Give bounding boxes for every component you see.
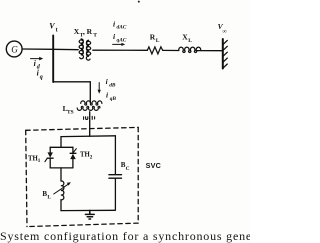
svg-text:R: R [87, 27, 93, 36]
thyristor loop top [50, 146, 73, 148]
svg-text:qB: qB [110, 96, 117, 102]
arrow iAC [113, 43, 126, 46]
svg-text:,: , [83, 27, 85, 36]
wire thyristor to BL [60, 168, 62, 181]
wire BL to bottom [60, 200, 62, 211]
capacitor BC [109, 175, 122, 179]
label BC [121, 161, 130, 172]
transformer LTS secondary [77, 106, 100, 110]
label LTS [63, 104, 74, 116]
SVC dashed box [26, 127, 139, 226]
label iq [37, 68, 43, 80]
wire capacitor to bottom [114, 179, 116, 211]
label Vt [49, 21, 57, 33]
label TH2 [80, 152, 93, 161]
arrow through BL [54, 182, 71, 194]
svg-text:L: L [156, 38, 160, 44]
svg-text:L: L [188, 38, 192, 44]
svg-text:2: 2 [90, 154, 93, 160]
transformer XT RT [79, 39, 91, 60]
wire XL to infinite bus [196, 50, 221, 52]
label TH1 [28, 155, 41, 164]
bus Vt [52, 36, 54, 83]
resistor RL [147, 47, 162, 54]
wire transformer to RL [93, 49, 148, 51]
label iqAC [113, 32, 127, 43]
label BL [42, 190, 51, 201]
label iqB [106, 91, 116, 103]
inductor XL [179, 47, 201, 52]
svg-text:dB: dB [109, 83, 116, 89]
top speck [138, 1, 140, 3]
svg-text:i: i [106, 91, 109, 100]
label RL [150, 32, 160, 44]
svg-text:T: T [93, 32, 97, 38]
svg-text:qAC: qAC [117, 38, 127, 44]
label XL [182, 32, 192, 44]
wire generator to bus Vt [22, 48, 53, 50]
svg-text:G: G [11, 44, 18, 54]
svg-text:∞: ∞ [222, 29, 227, 35]
transformer LTS winding marks [84, 116, 95, 119]
svg-text:V: V [49, 21, 55, 30]
wire LTS to SVC [89, 112, 91, 136]
svg-text:L: L [47, 195, 51, 201]
caption [0, 229, 300, 243]
svg-text:i: i [106, 77, 109, 86]
thyristor TH1 [45, 147, 53, 168]
arrow iB down [98, 83, 101, 94]
svg-text:q: q [40, 74, 43, 80]
wire to transformer [53, 48, 78, 50]
transformer LTS primary [81, 101, 102, 105]
wire RL to XL [163, 49, 179, 51]
wire to thyristor pair [60, 137, 62, 148]
wire SVC top to capacitor [114, 136, 116, 174]
infinite bus bar [222, 39, 224, 69]
label idAC [113, 19, 127, 30]
svg-text:TS: TS [67, 110, 74, 116]
label idB [106, 77, 116, 89]
generator G [6, 41, 22, 57]
ground [85, 210, 94, 219]
svg-text:SVC: SVC [146, 161, 161, 170]
label Vinf [218, 22, 228, 35]
label XT RT [74, 27, 97, 39]
svg-text:dAC: dAC [117, 25, 127, 31]
inductor BL [61, 181, 64, 200]
thyristor loop bottom [50, 167, 73, 169]
arrow id iq [31, 57, 44, 61]
infinite bus hatching [223, 40, 227, 68]
svg-text:C: C [126, 166, 130, 172]
svg-text:1: 1 [38, 158, 41, 164]
wire bus to SVC branch [53, 82, 90, 103]
label id [34, 59, 41, 71]
SVC top wire [61, 135, 115, 138]
SVC bottom wire [61, 209, 115, 211]
svg-text:t: t [56, 27, 58, 33]
thyristor TH2 [70, 147, 76, 168]
